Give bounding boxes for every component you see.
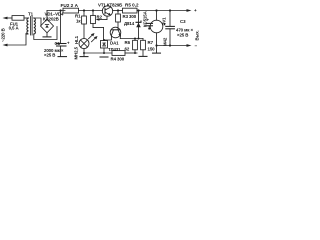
fuse FU1 bbox=[12, 16, 29, 21]
label 2000uF 25V bbox=[44, 48, 64, 58]
output plus arrow bbox=[187, 8, 198, 13]
emitter wire VT2 to R6 R7 bbox=[120, 38, 143, 40]
ground DA1 bbox=[100, 56, 108, 58]
label VD1-VD4 KD202V bbox=[43, 12, 64, 22]
wire fuse to VT1 bbox=[79, 10, 103, 12]
ground C1 bbox=[58, 56, 67, 58]
diode inside bridge bbox=[45, 24, 48, 27]
svg-text:М42: М42 bbox=[163, 37, 168, 46]
svg-text:DA1: DA1 bbox=[110, 41, 119, 46]
node DA1 bottom junction bbox=[103, 52, 105, 54]
diode bridge VD1-VD4 diamond bbox=[41, 19, 54, 33]
svg-text:Д814: Д814 bbox=[124, 21, 135, 26]
bottom wire left segment bbox=[84, 52, 112, 54]
node R2 junction bbox=[92, 9, 94, 11]
svg-text:С1: С1 bbox=[55, 41, 61, 46]
svg-text:FU2 2 А: FU2 2 А bbox=[61, 3, 79, 8]
wire bridge plus to top rail bbox=[46, 11, 48, 20]
node R3 junction bbox=[117, 9, 119, 11]
svg-text:Т1: Т1 bbox=[28, 12, 34, 17]
transformer T1 secondary winding bbox=[34, 18, 36, 34]
wire secondary bottom to bridge right vertex bbox=[34, 27, 57, 40]
svg-text:КД202В: КД202В bbox=[43, 17, 59, 22]
resistor R5 bbox=[123, 3, 190, 14]
chip DA1 TL431 bbox=[101, 41, 122, 54]
transistor VT1 KT829B bbox=[102, 6, 112, 20]
wiper wire R2 to VT1 base bbox=[96, 18, 107, 20]
capacitor C2 bbox=[146, 17, 153, 29]
transistor VT2 bbox=[104, 27, 121, 40]
resistor R7 bbox=[139, 39, 155, 57]
node R6 junction bbox=[134, 38, 136, 40]
potentiometer R2 bbox=[91, 11, 104, 41]
svg-text:R5 0,2: R5 0,2 bbox=[125, 3, 139, 8]
meter PV1 bbox=[150, 9, 167, 53]
bottom wire right segment bbox=[125, 52, 137, 54]
node C3 junction top bbox=[169, 9, 171, 11]
svg-text:МН2,5: МН2,5 bbox=[74, 46, 79, 59]
node DA1 collector junction bbox=[103, 39, 105, 41]
output minus rail bbox=[157, 44, 198, 49]
label C3 470uF bbox=[176, 19, 194, 37]
svg-text:~220 В: ~220 В bbox=[0, 28, 5, 42]
resistor R6 bbox=[125, 39, 138, 54]
capacitor C1 bbox=[55, 40, 71, 56]
fuse FU2 bbox=[63, 8, 79, 13]
transformer T1 primary winding bbox=[26, 18, 29, 34]
mains plug pin bottom (arrow) + wire bbox=[3, 34, 27, 47]
top rail left segment bbox=[47, 10, 65, 12]
node output minus junction bbox=[155, 44, 157, 46]
svg-text:×25 В: ×25 В bbox=[177, 32, 188, 37]
wire VT1 to R5 bbox=[113, 10, 123, 12]
svg-text:HL1: HL1 bbox=[74, 35, 79, 44]
wire secondary top to bridge bbox=[34, 18, 41, 26]
transformer T1 core bbox=[31, 17, 32, 36]
svg-text:Вых.: Вых. bbox=[195, 30, 200, 40]
zener diode VD5 bbox=[136, 10, 148, 39]
node C1 junction bbox=[59, 9, 61, 11]
svg-text:R3 300: R3 300 bbox=[123, 14, 137, 19]
svg-text:R2: R2 bbox=[97, 15, 103, 20]
lamp to bottom wire + ground bbox=[80, 49, 88, 57]
node R4 branch junction bbox=[137, 9, 139, 11]
svg-text:−: − bbox=[195, 44, 198, 49]
node R1 junction bbox=[83, 9, 85, 11]
label FU1 0,5A bbox=[9, 21, 20, 30]
svg-text:ТЛ431: ТЛ431 bbox=[108, 47, 121, 52]
mains plug pin top (arrow) bbox=[3, 17, 13, 20]
resistor R1 bbox=[75, 11, 86, 39]
bridge minus ground bbox=[43, 33, 51, 37]
wire down to C1 bbox=[60, 11, 62, 44]
node R6 bottom junction bbox=[134, 52, 136, 54]
svg-text:R7: R7 bbox=[148, 40, 154, 45]
lamp HL1 bbox=[79, 39, 89, 49]
lamp rays bbox=[89, 33, 98, 42]
resistor R3 bbox=[116, 11, 137, 30]
capacitor C3 bbox=[164, 11, 175, 47]
resistor R4 horizontal (shunt) bbox=[111, 51, 126, 62]
svg-text:VT1 КТ829Б: VT1 КТ829Б bbox=[98, 3, 122, 8]
svg-text:С3: С3 bbox=[180, 19, 186, 24]
svg-text:150: 150 bbox=[148, 47, 156, 52]
svg-text:R4 300: R4 300 bbox=[111, 57, 125, 62]
svg-text:+: + bbox=[194, 8, 197, 13]
svg-text:R6: R6 bbox=[125, 40, 131, 45]
svg-text:0,5 А: 0,5 А bbox=[9, 26, 20, 31]
svg-text:×25 В: ×25 В bbox=[44, 53, 55, 58]
